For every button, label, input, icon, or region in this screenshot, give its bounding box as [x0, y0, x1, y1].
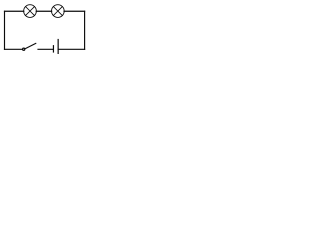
lamp 1 — [24, 5, 37, 18]
wire between lamps — [36, 10, 52, 12]
switch (open) — [23, 43, 36, 50]
wire right vertical — [84, 11, 86, 49]
wire battery to switch contact — [38, 48, 53, 50]
wire left vertical — [4, 11, 6, 49]
battery cell — [53, 40, 58, 54]
wire top-right segment — [64, 10, 85, 12]
wire top-left segment — [5, 10, 24, 12]
wire bottom-right segment — [58, 48, 84, 50]
lamp 2 — [52, 5, 65, 18]
wire bottom-left segment — [5, 48, 23, 50]
